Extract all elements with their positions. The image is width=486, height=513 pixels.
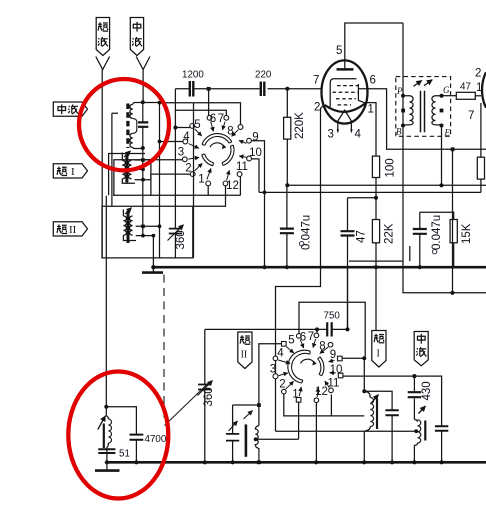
coil L1 MW ferrite antenna: dashed core <box>126 104 129 149</box>
wire top box stub <box>112 113 118 206</box>
wire box around S1b top <box>299 302 365 356</box>
wire c10 right-down <box>252 159 259 193</box>
coil T2 inner box <box>114 160 151 196</box>
wire bus y192 <box>259 191 481 193</box>
svg-text:47: 47 <box>356 230 368 243</box>
svg-text:I: I <box>377 349 380 360</box>
wire pin2 down <box>276 105 325 432</box>
svg-text:4700: 4700 <box>145 434 167 445</box>
coil T3 SW-II osc transformer: box <box>102 206 193 258</box>
svg-text:220K: 220K <box>294 112 306 139</box>
wire T2 taps to vertical <box>135 160 151 180</box>
wire bus y185 <box>287 184 486 186</box>
wire x193 vertical <box>193 103 195 258</box>
wire antenna SW down <box>101 70 103 258</box>
wire tap down to ground bus <box>152 236 154 267</box>
coil L-osc SW-I <box>362 356 378 462</box>
wire osc tap y439 <box>256 438 299 440</box>
svg-text:2: 2 <box>185 163 191 175</box>
node junctions bottom bus left <box>105 460 109 464</box>
antenna symbol shortwave <box>96 57 110 70</box>
wire pin1 right-down <box>364 103 376 157</box>
svg-text:E: E <box>444 128 451 138</box>
wire c2 link <box>151 174 193 180</box>
annotation red ellipse top <box>79 79 169 170</box>
oscillator feedback coil (red ellipse area) <box>98 196 137 450</box>
wire IF E down <box>441 126 443 186</box>
resistor 15K <box>420 212 473 267</box>
wire main bus y267 (AVC line) <box>153 266 486 269</box>
svg-text:51: 51 <box>119 449 130 460</box>
wire x376 tag feed <box>375 267 377 331</box>
wire c1 down <box>298 402 300 439</box>
wire vertical x159.5 <box>159 102 161 258</box>
resistor 220K <box>284 89 306 186</box>
svg-text:3: 3 <box>328 129 334 141</box>
svg-text:3: 3 <box>270 363 276 375</box>
tube V2 (partial right) <box>468 68 486 123</box>
svg-text:8: 8 <box>319 341 325 353</box>
wire T2 left lead <box>122 153 135 184</box>
wire c6 up to cap wire <box>208 89 210 116</box>
node junction MW top <box>141 100 145 104</box>
svg-text:7: 7 <box>308 331 314 343</box>
rotary switch S1b numbers <box>270 331 343 401</box>
coil L1 winding bottom <box>130 133 133 147</box>
node tag SW-II (left) <box>53 222 87 236</box>
wire c2 down <box>284 394 365 416</box>
node junction MW bottom <box>141 146 145 150</box>
svg-text:7: 7 <box>218 113 224 125</box>
svg-text:B: B <box>396 127 402 137</box>
svg-text:3: 3 <box>178 147 184 159</box>
tube V1 heater <box>338 110 352 130</box>
wire L1 link windings <box>133 118 137 133</box>
wire c1 down <box>207 186 209 195</box>
antenna symbol mediumwave <box>136 57 150 70</box>
wire c9 right-down <box>251 141 264 268</box>
svg-text:4: 4 <box>183 131 190 143</box>
svg-text:I: I <box>71 166 75 178</box>
tube V1 cathode <box>325 103 366 112</box>
capacitor 51 <box>98 449 130 463</box>
rotary switch S1a contacts <box>182 115 251 185</box>
coil T2 SW-I osc transformer: outer box corner <box>109 154 145 196</box>
wire c3 to coil tap <box>143 159 182 161</box>
svg-text:11: 11 <box>328 378 340 390</box>
svg-text:4: 4 <box>277 348 284 360</box>
wire T3 leads <box>123 210 136 241</box>
coil T2 left winding <box>122 161 125 179</box>
terminal mark o1 <box>300 242 304 246</box>
coil T3 core <box>127 211 130 243</box>
wire pin6 right-down <box>358 89 486 149</box>
wire c9 to box right <box>342 357 364 359</box>
coil T2 core <box>125 154 128 182</box>
wire antenna MW down <box>142 70 144 103</box>
mechanical link dashed (tuning gang) <box>163 275 165 422</box>
svg-text:9: 9 <box>252 132 258 144</box>
svg-text:G: G <box>443 85 450 95</box>
capacitor 430 + trimmer (MW osc) <box>408 376 433 419</box>
transformer B1 IF (dashed box) <box>396 77 451 138</box>
wire V2 pin7 chain down <box>480 103 482 157</box>
wire y261 stub <box>349 246 410 261</box>
wire vertical from MW junction down (tap bus) <box>142 148 144 236</box>
node tag mediumwave antenna (top) <box>130 18 143 56</box>
svg-text:4: 4 <box>355 129 362 141</box>
resistor 100 <box>372 156 396 219</box>
resistor 22K <box>372 220 395 268</box>
tube V1 plate and pin5 <box>337 68 354 71</box>
wire c11 drop to y195 <box>239 177 241 196</box>
wire IF G to R47 <box>442 95 457 97</box>
wire x347 down to 750 <box>347 267 349 329</box>
coil L-osc SW-II <box>244 411 259 463</box>
coil T2 adjust arrow <box>124 151 131 157</box>
svg-text:7: 7 <box>468 110 474 122</box>
resistor 47 (grid stopper) <box>456 82 481 100</box>
svg-text:II: II <box>241 350 248 361</box>
node junctions bottom bus <box>257 460 261 464</box>
coil T3 adjust arrow <box>125 208 132 214</box>
ground symbol g1 <box>152 267 154 272</box>
svg-text:9: 9 <box>330 349 336 361</box>
annotation red ellipse bottom <box>68 372 168 499</box>
annotation pointer line <box>165 382 210 426</box>
svg-text:360: 360 <box>175 230 187 249</box>
wire c4 left <box>160 141 183 143</box>
svg-text:1: 1 <box>292 389 298 401</box>
wire main grid line y88.8 <box>175 88 321 90</box>
rotary switch S1b contacts <box>273 333 343 402</box>
svg-text:10: 10 <box>330 364 343 376</box>
variable capacitor 360 (top RF tuning) <box>168 89 188 258</box>
variable capacitor 360 (osc) <box>198 329 216 462</box>
wire IF primary vertical <box>403 23 486 293</box>
svg-text:11: 11 <box>236 161 248 173</box>
terminal mark o2 <box>432 250 436 254</box>
svg-text:1: 1 <box>368 104 374 116</box>
node tag shortwave antenna (top) <box>96 18 109 56</box>
wire c12 down <box>315 403 317 463</box>
svg-text:12: 12 <box>226 180 239 192</box>
capacitor 0.047u (screen) <box>413 212 443 267</box>
capacitor 4700 <box>130 434 167 462</box>
node junction 220K top <box>285 87 289 91</box>
capacitor C-mw parallel <box>142 102 144 148</box>
coil T3 right winding <box>130 216 133 235</box>
svg-text:2: 2 <box>475 68 481 80</box>
rotary switch S1a numbers <box>178 113 262 192</box>
node tag SW-II (bottom) <box>238 332 252 369</box>
wire c12 down-left <box>193 186 226 207</box>
wire R100 to C47 <box>348 197 377 199</box>
wire c8 riser <box>160 103 241 125</box>
svg-text:5: 5 <box>336 45 342 57</box>
coil L1 winding top <box>130 104 133 118</box>
rotary switch S1b wiper arcs <box>288 350 324 383</box>
resistor right edge <box>477 157 484 179</box>
coil T2 right winding <box>128 161 131 179</box>
svg-text:360: 360 <box>203 387 215 406</box>
svg-text:II: II <box>69 224 77 236</box>
wire x452 vertical <box>452 149 454 293</box>
wire c10 to right (osc MW) <box>342 376 442 427</box>
wire y431 long <box>276 430 417 432</box>
rotary switch S1a wiper arcs <box>202 134 234 166</box>
node tag MW (left) <box>53 102 87 116</box>
svg-text:1: 1 <box>476 82 482 94</box>
wire L1 top to junction <box>133 103 160 149</box>
rotary switch S1b contact arrows <box>278 339 335 397</box>
svg-text:1: 1 <box>198 174 204 186</box>
wire c11 down <box>330 394 332 416</box>
svg-text:6: 6 <box>370 75 376 87</box>
svg-text:220: 220 <box>255 70 272 81</box>
wire c5 to x259 <box>259 344 282 426</box>
svg-text:10: 10 <box>249 147 262 159</box>
trimmer capacitor (SW-II osc) <box>226 405 239 462</box>
node tag SW-I (left) <box>53 164 87 178</box>
capacitor (osc SW-I pad) <box>364 391 399 462</box>
svg-text:47: 47 <box>460 82 471 93</box>
wire x259 to trimmer <box>233 404 259 406</box>
svg-text:100: 100 <box>385 158 397 177</box>
svg-text:0.047u: 0.047u <box>431 215 443 250</box>
capacitor (MW osc pad) <box>435 426 448 462</box>
svg-text:1200: 1200 <box>182 70 204 81</box>
tube V1 grid box <box>329 79 364 108</box>
svg-text:430: 430 <box>421 381 433 400</box>
svg-text:0.047u: 0.047u <box>301 215 313 250</box>
svg-text:2: 2 <box>279 379 285 391</box>
wire T3 taps <box>136 226 160 235</box>
svg-text:22K: 22K <box>384 223 396 244</box>
coil L-osc MW <box>414 420 425 463</box>
svg-text:750: 750 <box>324 311 341 322</box>
wire c5 to 360 junction <box>175 127 189 129</box>
capacitor 750 (osc padder) <box>205 311 348 337</box>
tube V1 envelope <box>322 60 368 123</box>
wire bottom bus <box>107 461 486 464</box>
capacitor 0.047u (AGC) <box>280 185 313 267</box>
svg-text:2: 2 <box>314 102 320 114</box>
svg-text:5: 5 <box>288 335 294 347</box>
node tag MW (bottom) <box>414 332 428 366</box>
ground symbol g2 <box>106 462 108 470</box>
coil T3 left winding <box>123 216 126 235</box>
wire 750 left to c7 <box>316 329 318 333</box>
node tag SW-I (bottom) <box>372 331 386 368</box>
capacitor 1200 <box>182 70 204 97</box>
svg-text:15K: 15K <box>461 223 473 244</box>
svg-text:7: 7 <box>313 75 319 87</box>
capacitor 220 <box>255 70 272 97</box>
capacitor 47 (cathode bypass) <box>341 198 368 330</box>
rotary switch S1a contact arrows <box>188 121 246 180</box>
wire bus y195 <box>113 194 241 196</box>
wire c7 up-left <box>175 110 226 115</box>
